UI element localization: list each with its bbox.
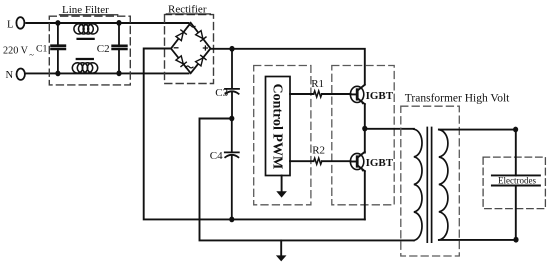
- transistor Q2 IGBT bottom: [350, 153, 363, 169]
- resistor R1: [314, 91, 322, 97]
- svg-text:IGBT: IGBT: [366, 90, 394, 102]
- wire secondary top to electrode: [439, 129, 516, 131]
- svg-text:R1: R1: [311, 78, 324, 90]
- line filter dashed box: [49, 16, 130, 85]
- electrodes dashed box: [483, 157, 545, 209]
- svg-text:220 V: 220 V: [3, 45, 29, 56]
- wire squiggle at top vertex: [188, 25, 195, 27]
- svg-text:C2: C2: [97, 43, 110, 55]
- wire secondary bottom to electrode: [439, 239, 516, 241]
- junction dot secondary bottom: [513, 237, 518, 243]
- svg-text:~: ~: [29, 49, 34, 59]
- wire top input L to bridge top vertex: [26, 22, 188, 24]
- svg-text:C3: C3: [215, 87, 228, 99]
- junction dot IGBT midpoint: [362, 126, 367, 132]
- svg-text:IGBT: IGBT: [366, 157, 394, 169]
- junction dot secondary top: [513, 127, 518, 133]
- ground below pwm: [281, 176, 283, 192]
- diode D4: [196, 55, 206, 66]
- junction dot C3 C4 midpoint: [229, 116, 234, 122]
- svg-text:Transformer High Volt: Transformer High Volt: [405, 92, 510, 104]
- capacitor C2: [118, 23, 120, 74]
- svg-text:Control PWM: Control PWM: [270, 84, 285, 170]
- bridge diamond: [171, 23, 211, 73]
- diode D1: [176, 30, 186, 41]
- electrode plates: [492, 175, 540, 185]
- capacitor C3: [225, 49, 239, 119]
- transformer T1 primary winding: [414, 129, 422, 240]
- igbt dashed box: [332, 66, 394, 205]
- terminal L: [16, 17, 24, 29]
- wire gate R2: [290, 160, 314, 162]
- wire negative: left vertex down to bottom rail: [144, 49, 365, 220]
- diode D3: [176, 56, 186, 67]
- junction dot C2 top: [116, 20, 121, 26]
- capacitor C4: [225, 119, 239, 220]
- terminal N: [17, 69, 25, 80]
- svg-text:L: L: [7, 19, 13, 30]
- svg-text:R2: R2: [312, 145, 325, 157]
- wire between IGBTs: [364, 104, 366, 153]
- minus sign: [174, 47, 178, 49]
- wire mid branch to transformer primary bottom: [200, 119, 414, 241]
- inductor top choke: [74, 24, 98, 34]
- junction dot C2 bottom: [116, 70, 121, 76]
- wire gate R1: [290, 93, 314, 95]
- wire bottom input N to bridge bottom vertex: [26, 72, 189, 74]
- junction dot plus rail: [229, 46, 234, 52]
- junction dot C1 top: [55, 20, 60, 26]
- transformer dashed box: [401, 106, 460, 256]
- plus sign: [203, 46, 207, 50]
- svg-text:N: N: [6, 70, 14, 81]
- junction dot C4 bottom rail: [229, 217, 234, 223]
- capacitor C1: [57, 23, 59, 73]
- svg-text:C4: C4: [210, 150, 223, 162]
- resistor R2: [314, 158, 322, 164]
- wire squiggle at bottom vertex: [186, 66, 193, 68]
- rectifier dashed box: [165, 15, 214, 84]
- wire electrode vertical: [515, 130, 517, 240]
- control pwm block U1: [266, 77, 291, 176]
- control pwm dashed box: [254, 66, 311, 205]
- wire positive rail to top IGBT collector: [211, 49, 365, 84]
- inductor bottom choke: [72, 63, 97, 73]
- diode D2: [196, 31, 206, 42]
- junction dot C1 bottom: [55, 71, 60, 77]
- svg-text:C1: C1: [36, 43, 48, 54]
- transformer T1 secondary winding: [439, 130, 448, 240]
- ground bottom rail: [280, 240, 282, 255]
- wire R1 to gate: [322, 93, 351, 95]
- wire Q2 emitter to bottom rail: [364, 171, 366, 219]
- transformer core: [427, 128, 431, 243]
- wire midpoint to transformer primary: [365, 128, 414, 130]
- transistor Q1 IGBT top: [350, 86, 363, 102]
- wire R2 to gate: [322, 160, 351, 162]
- svg-text:Electrodes: Electrodes: [498, 176, 536, 186]
